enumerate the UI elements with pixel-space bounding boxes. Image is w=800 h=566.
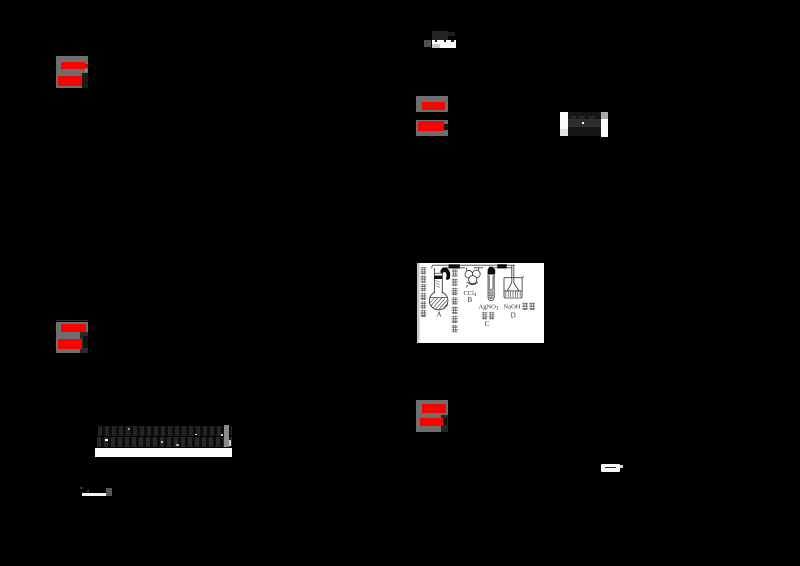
header white blob notch 3 bbox=[451, 40, 454, 42]
heading gray streak right bbox=[224, 425, 229, 447]
bulb B inlet tube bbox=[465, 268, 468, 271]
right-low red bar 1 bbox=[422, 404, 447, 413]
right-low dark corner patch bbox=[441, 415, 448, 432]
apparatus figure box bbox=[417, 263, 544, 343]
right-top gray highlight rect 1 bbox=[416, 96, 448, 113]
inline equation image: right white strip bbox=[601, 119, 608, 137]
tube C liquid speckle bbox=[489, 289, 493, 299]
right-low black tick bbox=[444, 418, 447, 426]
heading faint text row 1 bbox=[98, 426, 232, 436]
header smudge dark part bbox=[432, 31, 448, 40]
heading white speck f bbox=[176, 444, 179, 446]
bottom-left white strip bbox=[82, 493, 106, 496]
flask mouth rim bbox=[434, 272, 443, 274]
manifold rubber connector 2 bbox=[497, 264, 506, 268]
flask neck left wall bbox=[433, 268, 435, 293]
beaker liquid hatch bbox=[506, 291, 520, 297]
left-top red bar 2 bbox=[58, 76, 82, 86]
heading white speck g bbox=[229, 440, 231, 446]
header white blob notch 2 bbox=[444, 40, 446, 43]
arrow badge tail bbox=[620, 465, 623, 468]
heading white speck b bbox=[195, 434, 197, 436]
bottom-left faint specks bbox=[80, 487, 83, 489]
inline equation image: left white strip bbox=[560, 112, 568, 129]
label rongye after NaOH (fake glyphs) bbox=[522, 302, 535, 309]
heading white speck c bbox=[221, 434, 223, 436]
manifold tube top line bbox=[432, 265, 515, 268]
heading white speck a bbox=[105, 439, 108, 441]
left-top dark corner patch bbox=[82, 73, 88, 88]
right-top gray highlight rect 2 bbox=[416, 120, 448, 136]
arrow badge dark dash bbox=[605, 467, 617, 469]
right-top red bar 1 bbox=[422, 102, 445, 110]
vertical text: bromine benzene mixture (6 fake glyphs) bbox=[421, 267, 427, 317]
heading white underline band bbox=[95, 448, 232, 457]
right-top red bar 2 bbox=[418, 121, 444, 131]
flask neck fill bbox=[435, 273, 442, 293]
svg-text:NaOH: NaOH bbox=[504, 304, 521, 311]
left-top pale tick bbox=[85, 69, 87, 72]
bulb B left circle bbox=[465, 270, 473, 278]
left-top gray highlight square bbox=[56, 56, 88, 88]
arrow badge white bbox=[601, 464, 620, 472]
inline equation image: glyph bumps bbox=[571, 116, 576, 119]
svg-text:B: B bbox=[467, 296, 472, 304]
left-mid red bar 2 bbox=[58, 339, 82, 349]
funnel cone right bbox=[514, 283, 519, 291]
gas bubbler B bulbs bbox=[465, 268, 480, 288]
header white-out blob bbox=[432, 40, 456, 48]
figure left scan-edge gray strip bbox=[417, 263, 420, 343]
vertical text: soft rubber capsule iron powder (7 fake glyphs) bbox=[452, 269, 458, 332]
test tube C walls bbox=[488, 268, 494, 301]
heading white speck e bbox=[128, 428, 130, 430]
inline equation image: white speck bbox=[582, 122, 584, 124]
heading white speck d bbox=[161, 441, 163, 443]
tube C liquid gray fill bbox=[489, 289, 494, 300]
right-low red bar 2 bbox=[420, 418, 443, 426]
left-mid dark corner patch bbox=[80, 332, 88, 353]
label rongye under AgNO3 (fake glyphs) bbox=[482, 312, 495, 319]
inline equation image: left strip gray bottom bbox=[560, 129, 568, 136]
bulb B right circle bbox=[472, 270, 480, 278]
funnel stem bbox=[512, 266, 514, 283]
rubber capsule black hook bbox=[440, 267, 450, 279]
beaker liquid surface bbox=[504, 290, 521, 292]
inline equation image: dark stroke band bbox=[568, 119, 601, 127]
left-mid darker top line bbox=[56, 320, 89, 321]
flask liquid surface bbox=[430, 297, 448, 299]
left-top red bar 1 bbox=[61, 62, 86, 69]
bottom-left gray patch bbox=[106, 488, 112, 496]
bulb B bottom circle bbox=[469, 276, 477, 284]
manifold bend into tube C bbox=[489, 268, 494, 270]
flask neck right wall bbox=[441, 268, 443, 293]
flask liquid hatching bbox=[430, 298, 448, 310]
right-top dark glyph by red bar 2 bbox=[444, 124, 448, 130]
svg-text:C: C bbox=[485, 320, 490, 328]
beaker D bbox=[504, 266, 524, 298]
left-mid red bar 1 bbox=[61, 324, 86, 332]
tube C black stopper bbox=[488, 269, 496, 275]
header gray patch left bbox=[424, 40, 431, 47]
inline equation image: dark middle bbox=[568, 112, 601, 136]
bulb B under-arc bbox=[467, 282, 478, 285]
bulb B tail bbox=[466, 285, 467, 287]
funnel cone left bbox=[507, 283, 512, 291]
flask ground-joint hatch bbox=[435, 280, 440, 287]
manifold rubber connector 1 bbox=[449, 264, 460, 268]
heading faint text row 2 bbox=[97, 437, 232, 447]
header smudge dark part right bbox=[448, 32, 455, 36]
inline equation image: right strip gray top bbox=[601, 112, 608, 119]
left-top red tick bbox=[85, 64, 87, 67]
header blob gray bottom bbox=[432, 44, 440, 48]
right-low gray highlight square bbox=[416, 400, 448, 432]
flask stopper dark band bbox=[434, 276, 442, 279]
tube C stopper nub bbox=[489, 267, 493, 269]
svg-text:D: D bbox=[511, 311, 516, 319]
header white blob notch 1 bbox=[435, 40, 437, 42]
svg-text:AgNO3: AgNO3 bbox=[479, 304, 499, 312]
flask bulb bbox=[429, 292, 448, 310]
bottom-left faint speck 2 bbox=[87, 490, 89, 492]
left-mid black marks in corner bbox=[83, 336, 89, 349]
left-mid gray highlight square bbox=[56, 322, 89, 353]
svg-text:A: A bbox=[436, 311, 441, 319]
bulb B outlet tube bbox=[477, 268, 479, 271]
manifold tube bottom line bbox=[443, 267, 512, 269]
figure white background bbox=[417, 263, 544, 343]
